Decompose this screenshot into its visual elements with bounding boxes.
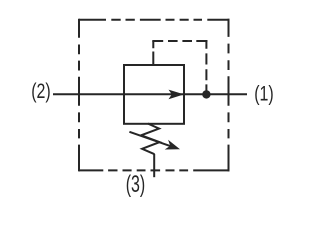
pilot line dashed right vertical down to junction xyxy=(205,40,207,94)
enclosure dashed box left edge xyxy=(78,19,80,172)
junction dot node xyxy=(202,90,210,98)
pilot line dashed top horizontal xyxy=(152,40,207,42)
flow arrowhead at valve right edge xyxy=(169,90,185,100)
spring adjustment arrowhead xyxy=(165,140,180,150)
enclosure dashed box top edge xyxy=(79,19,230,21)
svg-text:(2): (2) xyxy=(31,80,51,103)
svg-text:(1): (1) xyxy=(254,82,274,105)
enclosure dashed box right edge xyxy=(228,19,230,172)
spring adjustment arrow shaft xyxy=(129,132,171,147)
spring (adjustable) zigzag xyxy=(141,124,159,155)
wire: main horizontal line port 2 to port 1 xyxy=(53,93,247,95)
svg-text:(3): (3) xyxy=(126,171,146,198)
valve body square xyxy=(124,65,184,124)
enclosure dashed box bottom edge xyxy=(79,169,230,171)
pilot line vertical stub from valve top xyxy=(152,41,154,65)
wire: bottom stub to port 3 xyxy=(153,154,155,177)
